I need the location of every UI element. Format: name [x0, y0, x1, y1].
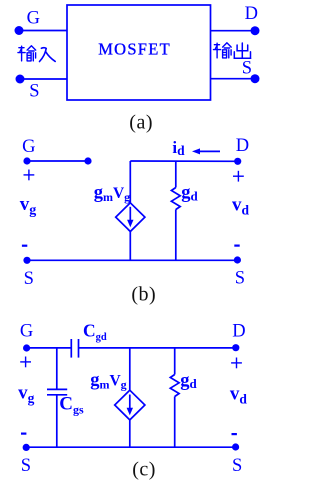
svg-text:gd: gd: [180, 371, 197, 391]
svg-text:vg: vg: [20, 194, 37, 218]
svg-text:S: S: [21, 456, 31, 476]
svg-text:G: G: [27, 8, 40, 28]
svg-text:D: D: [232, 322, 245, 342]
svg-text:MOSFET: MOSFET: [98, 40, 170, 59]
svg-text:G: G: [22, 137, 35, 157]
svg-text:Cgd: Cgd: [83, 320, 107, 343]
svg-text:(b): (b): [131, 284, 156, 306]
svg-text:Cgs: Cgs: [59, 394, 84, 417]
svg-text:S: S: [29, 81, 39, 101]
svg-text:S: S: [242, 59, 252, 79]
svg-text:gd: gd: [181, 183, 198, 203]
svg-text:gmVg: gmVg: [94, 183, 130, 204]
svg-text:id: id: [172, 138, 185, 158]
svg-text:vd: vd: [232, 194, 250, 217]
svg-text:S: S: [24, 269, 34, 289]
svg-text:S: S: [232, 456, 242, 476]
svg-text:(c): (c): [132, 458, 156, 480]
svg-text:D: D: [236, 136, 249, 156]
svg-text:G: G: [20, 322, 33, 342]
svg-text:gmVg: gmVg: [90, 370, 126, 391]
svg-text:(a): (a): [129, 112, 153, 134]
svg-text:vg: vg: [18, 383, 34, 406]
svg-text:S: S: [235, 269, 245, 289]
svg-text:vd: vd: [230, 383, 248, 406]
svg-text:D: D: [245, 4, 258, 24]
